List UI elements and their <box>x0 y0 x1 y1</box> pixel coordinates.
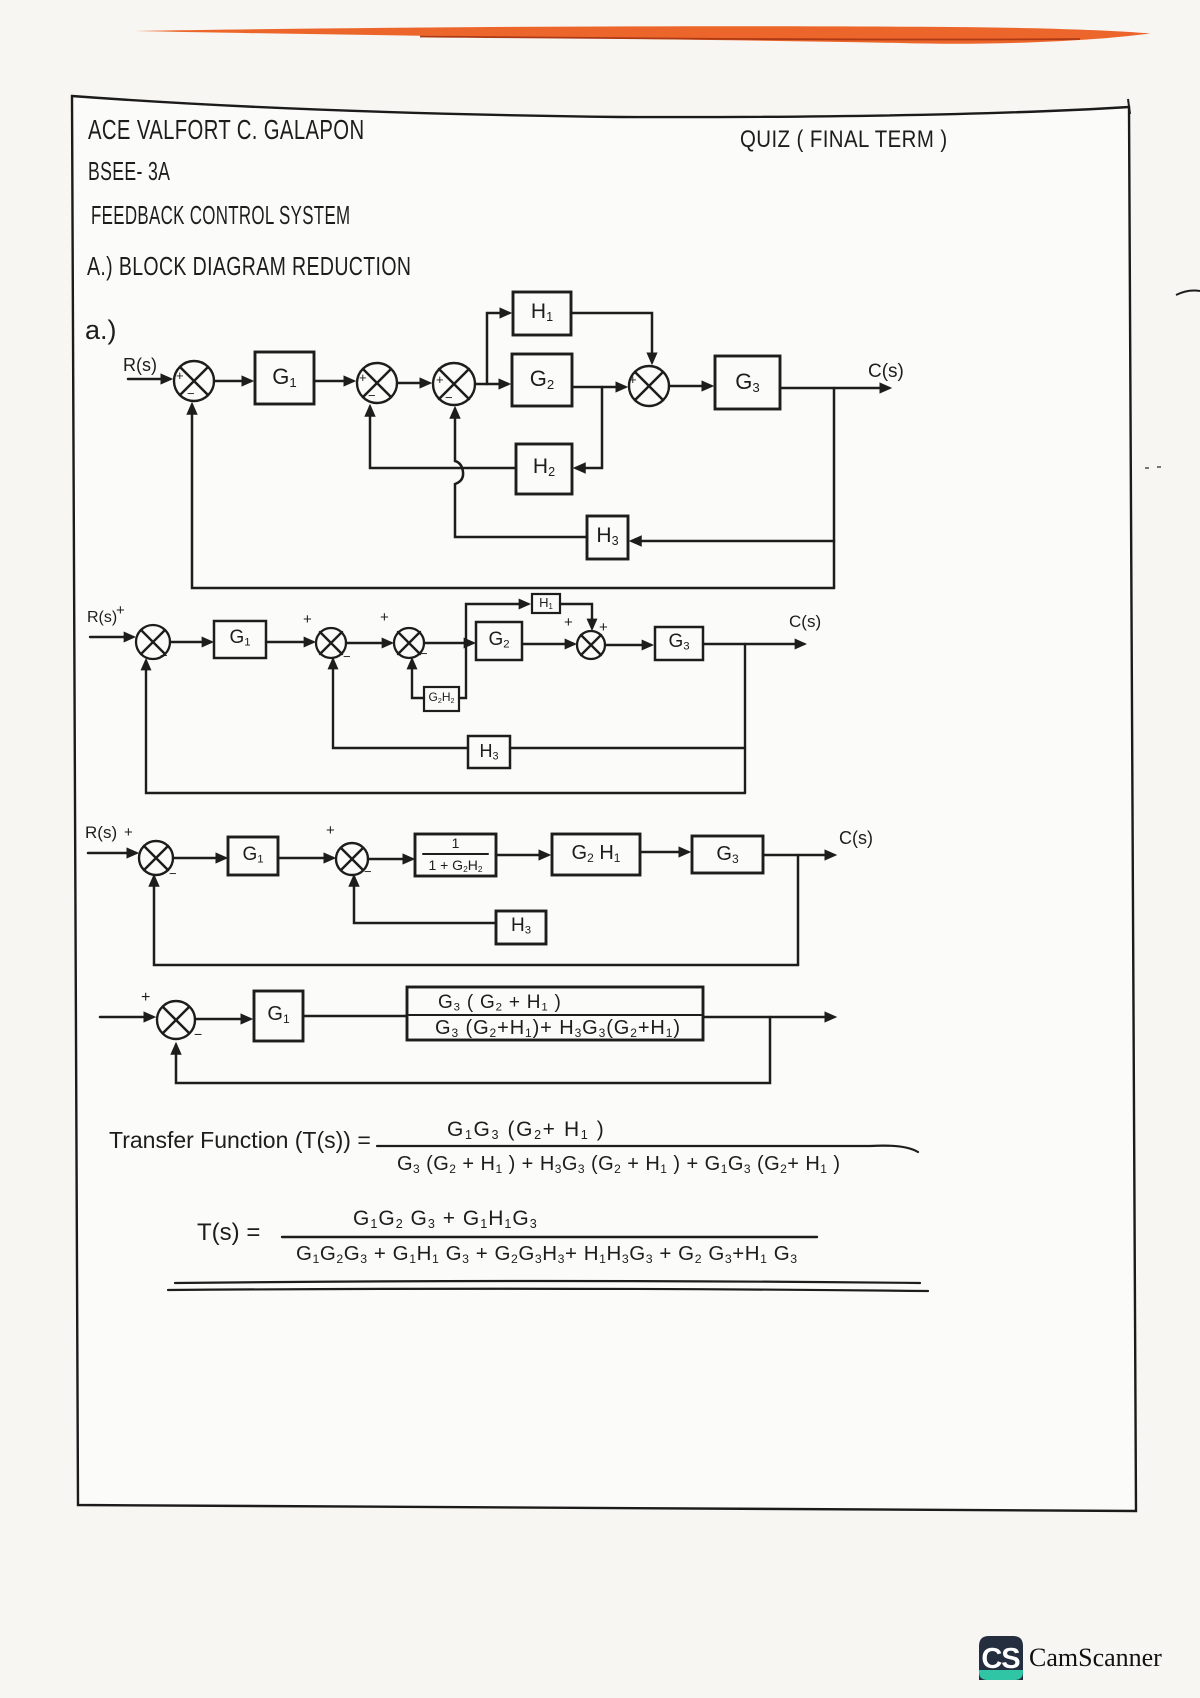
sign plus S3 d2 <box>380 609 389 626</box>
block G3 d3 <box>692 836 763 873</box>
wire H3 output to S3 bottom with crossover hop <box>455 409 587 537</box>
wire branch down into G2H2 d2 <box>459 643 466 698</box>
block G1 d4 <box>254 991 303 1041</box>
sign plus right S4 d2 <box>599 619 608 636</box>
sign minus S3 d2 <box>420 646 428 661</box>
sign plus S3 d1 <box>436 372 444 387</box>
sign minus S1 d1 <box>187 386 195 401</box>
transfer function numerator <box>447 1118 605 1142</box>
label H3 d3 <box>496 915 546 937</box>
T(s) numerator <box>353 1207 538 1231</box>
wire output branch down <box>833 388 836 588</box>
label G1 d2 <box>214 627 266 649</box>
block G2 d2 <box>476 622 522 660</box>
label H3 d1 <box>587 524 628 548</box>
wire S1 to G1 d4 <box>195 1018 250 1021</box>
block G2 <box>512 354 572 406</box>
wire output branch down d2 <box>744 644 746 793</box>
block 1/(1+G2H2) d3 <box>415 834 496 876</box>
label H1 d2 <box>532 595 560 611</box>
label G1 d1 <box>255 364 314 390</box>
wire G3 to C(s) d2 <box>703 643 804 645</box>
wire R(s) input to S1 (diagram 3) <box>88 852 136 855</box>
big block denominator d4 <box>435 1017 681 1040</box>
node C(s) d1 <box>868 361 904 383</box>
wire G2H2 output to S3 bottom d2 <box>412 660 424 698</box>
sign minus S2 d3 <box>364 864 372 879</box>
sign minus S2 d2 <box>343 649 351 664</box>
final answer double underline top <box>175 1281 920 1283</box>
block H3 d3 <box>496 911 546 944</box>
fraction bar inside big block d4 <box>409 1014 701 1016</box>
fraction bar transfer function line 1 <box>377 1146 918 1152</box>
fraction denominator 1+G2H2 d3 <box>415 857 496 874</box>
sign minus S2 d1 <box>368 388 376 403</box>
wire fraction block to G2H1 d3 <box>496 854 548 857</box>
wire S2 to fraction block d3 <box>368 858 412 861</box>
wire H2 output to S2 bottom <box>370 407 516 468</box>
sign plus S1 d4 <box>141 989 150 1007</box>
label H3 d2 <box>468 741 510 762</box>
fraction bar inside block d3 <box>423 853 488 855</box>
block G1 <box>255 352 314 404</box>
node C(s) d3 <box>839 828 873 849</box>
label G1 d3 <box>228 844 278 866</box>
transfer function denominator <box>397 1153 840 1176</box>
wire R(s) input to S1 <box>128 378 170 381</box>
label G1 d4 <box>254 1003 303 1026</box>
label G2 d1 <box>512 366 572 392</box>
wire H1 down into S4 d2 <box>560 604 592 628</box>
section A heading <box>87 251 411 282</box>
summing junction S2 <box>357 363 397 403</box>
wire branch down into H2 <box>576 387 602 468</box>
wire G2 to S4 d2 <box>522 643 574 645</box>
wire S1 to G1 <box>214 380 251 383</box>
orange scanner streak <box>135 26 1150 44</box>
CamScanner wordmark <box>1029 1643 1162 1673</box>
summing junction S1 d4 <box>157 1001 195 1039</box>
wire G2 to S4 <box>572 386 625 389</box>
sign minus S1 d4 <box>194 1026 202 1042</box>
wire H1 output down into S4 <box>571 313 652 362</box>
wire S3 to G2 with node at x487 <box>475 383 508 386</box>
wire G1 to S2 d2 <box>266 641 313 643</box>
block G1 d2 <box>214 621 266 658</box>
node R(s) d3 <box>85 823 117 843</box>
D1T <box>90 594 804 793</box>
block G2H2 d2 <box>424 687 459 711</box>
sign minus S1 d3 <box>169 866 177 881</box>
wire G3 to C(s) output <box>780 387 889 390</box>
T(s) denominator <box>296 1242 798 1266</box>
wire S1 to G1 d3 <box>173 857 225 860</box>
header quiz text <box>740 126 948 154</box>
wire G1 to S2 <box>314 380 353 383</box>
sign plus S2 d1 <box>359 370 367 385</box>
sign plus S2 d3 <box>326 822 335 839</box>
wire input to S1 (diagram 4) <box>100 1016 153 1019</box>
wire S3 to G2 d2 <box>424 642 473 644</box>
summing junction S1 d3 <box>139 841 173 875</box>
sign plus left S4 d2 <box>564 614 573 631</box>
block G2H1 d3 <box>552 834 640 875</box>
wire outer feedback to S1 bottom <box>192 405 834 588</box>
summing junction S2 d2 <box>316 628 346 658</box>
wire H3 output to S2 bottom d2 <box>333 660 468 748</box>
wire H3 right tap d2 <box>510 747 745 749</box>
wire feedback loop to S1 bottom d4 <box>176 1017 770 1083</box>
wire branch up to H1 d2 <box>466 604 528 643</box>
wire S2 to S3 d2 <box>346 642 391 644</box>
wire S1 to G1 d2 <box>170 641 211 643</box>
label G2H1 d3 <box>552 842 640 865</box>
summing junction S1 <box>174 361 214 401</box>
wire big block to output d4 <box>703 1016 834 1019</box>
summing junction S1 d2 <box>136 625 170 659</box>
wire G3 to C(s) d3 <box>763 854 834 857</box>
final answer double underline bottom <box>168 1289 928 1291</box>
label G3 d1 <box>715 369 780 395</box>
D4 <box>168 1146 928 1291</box>
node C(s) d2 <box>789 612 821 632</box>
stray pen dots right margin <box>1145 467 1161 468</box>
wire G1 to big block d4 <box>303 1015 407 1018</box>
sign plus S2 d2 <box>303 611 312 628</box>
label G2H2 d2 <box>424 690 459 705</box>
label H2 d1 <box>516 455 572 479</box>
sign minus S3 d1 <box>445 390 453 405</box>
header name text <box>88 114 364 146</box>
block G3 d2 <box>655 627 703 660</box>
stray pen hook right margin <box>1176 291 1200 296</box>
header subject text <box>91 200 350 231</box>
block H3 d2 <box>468 736 510 768</box>
block H1 small d2 <box>532 594 560 613</box>
node R(s) d2 <box>87 609 117 627</box>
sign minus S1 d2 <box>160 648 168 663</box>
block G3 <box>715 356 780 409</box>
wire outer feedback to S1 bottom d3 <box>154 877 798 965</box>
wire branch up to H1 <box>487 313 509 384</box>
wire G2H1 to G3 d3 <box>640 851 688 854</box>
summing junction S3 <box>433 363 475 405</box>
node R(s) d1 <box>123 355 157 376</box>
wire G1 to S2 d3 <box>278 857 333 860</box>
wire R(s) input to S1 (diagram 2) <box>90 636 133 638</box>
sign plus S4 d1 <box>629 372 637 387</box>
wire outer feedback to S1 bottom d2 <box>146 661 745 793</box>
wire S4 to G3 d2 <box>605 644 651 646</box>
wire S2 to S3 <box>397 382 429 385</box>
summing junction S4 d2 <box>577 631 605 659</box>
big block numerator d4 <box>438 992 562 1014</box>
D3T <box>100 987 834 1083</box>
label G3 d2 <box>655 631 703 653</box>
block H2 <box>516 444 572 494</box>
summing junction S2 d3 <box>336 843 368 875</box>
CamScanner logo icon <box>979 1636 1023 1680</box>
summing junction S3 d2 <box>394 628 424 658</box>
transfer function label <box>109 1127 371 1154</box>
fraction numerator 1 d3 <box>415 835 496 851</box>
D2T <box>88 834 834 965</box>
header course text <box>88 156 170 187</box>
wire output branch down d3 <box>797 855 800 965</box>
wire into H3 right side <box>632 540 834 543</box>
block H3 <box>587 516 628 559</box>
label H1 d1 <box>513 300 571 324</box>
label G2 d2 <box>476 629 522 651</box>
wire H3 output to S2 bottom d3 <box>354 877 496 923</box>
block G1 d3 <box>228 837 278 875</box>
svg-text:CS: CS <box>981 1643 1020 1675</box>
block H1 <box>513 292 571 335</box>
sign plus S1 d3 <box>124 824 133 841</box>
border corner stub top-right <box>1128 99 1130 114</box>
fraction bar T(s) line 2 <box>282 1236 817 1238</box>
sign plus S1 d1 <box>176 368 184 383</box>
summing junction S4 <box>629 366 669 406</box>
wire S4 to G3 <box>669 385 711 388</box>
item a label <box>85 315 117 346</box>
sign plus S1 d2 <box>116 602 125 619</box>
label G3 d3 <box>692 843 763 866</box>
block closed-loop fraction d4 <box>407 987 703 1040</box>
T(s) label <box>197 1219 260 1247</box>
page border frame <box>72 96 1136 1511</box>
